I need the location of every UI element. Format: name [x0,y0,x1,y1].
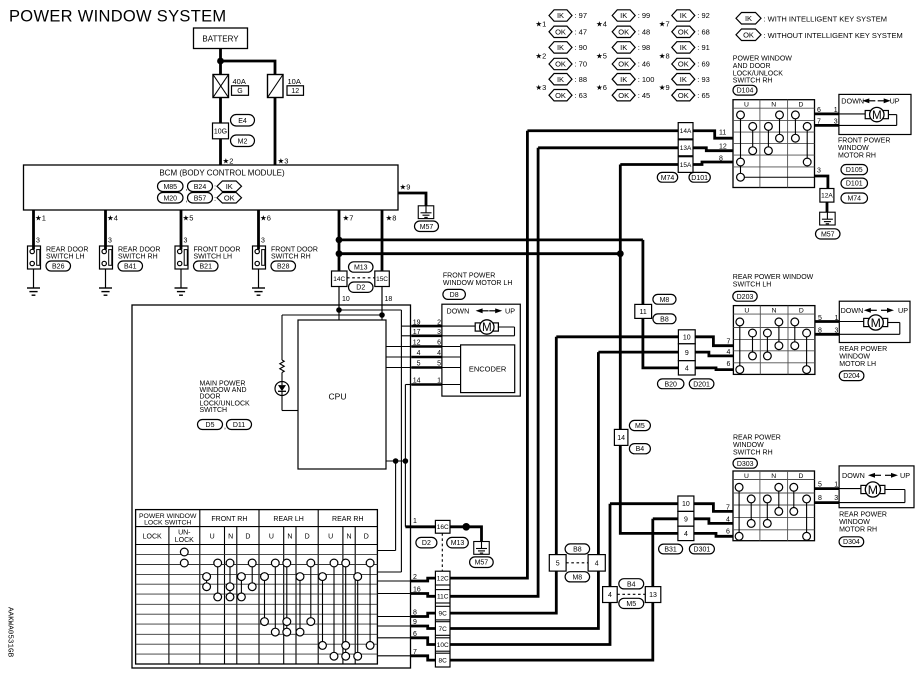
svg-text:D: D [364,533,369,540]
svg-text:IK: IK [680,75,687,84]
svg-text:★9: ★9 [400,183,411,192]
svg-text:IK: IK [557,11,564,20]
svg-text::: : [214,183,216,192]
svg-text:IK: IK [745,14,752,23]
svg-text:D: D [305,533,310,540]
svg-text:15C: 15C [376,276,388,283]
svg-text:IK: IK [557,43,564,52]
svg-text:9: 9 [413,619,417,626]
svg-text:WINDOW MOTOR LH: WINDOW MOTOR LH [443,280,512,287]
svg-text:N: N [772,307,777,314]
svg-text:SWITCH: SWITCH [200,407,228,414]
svg-text:D: D [798,473,803,480]
svg-text:OK: OK [618,60,629,69]
svg-text:1: 1 [413,518,417,525]
svg-text:LOCK: LOCK [175,537,194,544]
svg-text:10: 10 [683,334,691,341]
svg-text:: 100: : 100 [638,75,655,84]
svg-text:D2: D2 [422,540,431,547]
svg-text:8: 8 [818,495,822,502]
svg-text:★7: ★7 [343,214,354,223]
svg-text:9: 9 [684,516,688,523]
svg-text:: 45: : 45 [638,91,651,100]
svg-text:9C: 9C [439,611,448,618]
svg-text:M: M [872,109,882,122]
svg-text:2: 2 [413,574,417,581]
svg-text:E4: E4 [238,118,247,125]
svg-text:7C: 7C [439,626,448,633]
svg-text:SWITCH LH: SWITCH LH [46,254,85,261]
svg-text:M5: M5 [626,601,636,608]
svg-text:B8: B8 [660,316,669,323]
svg-text:,: , [224,424,226,431]
svg-text:OK: OK [555,60,566,69]
svg-text:D204: D204 [843,373,860,380]
svg-text:UP: UP [898,306,908,315]
svg-text:: 46: : 46 [638,60,651,69]
svg-text:OK: OK [678,60,689,69]
svg-text:10A: 10A [288,77,301,86]
svg-text:IK: IK [557,75,564,84]
svg-text:M2: M2 [238,138,248,145]
svg-text:★6: ★6 [596,83,607,92]
svg-text:D: D [245,533,250,540]
svg-text:U: U [744,307,749,314]
svg-text:6: 6 [726,529,730,536]
svg-text:D104: D104 [737,88,754,95]
svg-text:★5: ★5 [596,51,607,60]
svg-text:7: 7 [726,504,730,511]
svg-text:B20: B20 [664,381,677,388]
svg-text:OK: OK [743,30,754,39]
svg-text:10: 10 [342,296,350,303]
svg-text:D303: D303 [737,461,754,468]
svg-text:8C: 8C [439,658,448,665]
svg-text:DOWN: DOWN [842,471,865,480]
svg-text:16: 16 [413,587,421,594]
svg-text:★8: ★8 [659,51,670,60]
svg-text:11: 11 [640,309,647,316]
svg-text:★7: ★7 [659,19,670,28]
svg-text:D8: D8 [450,292,459,299]
svg-text:DOWN: DOWN [447,307,470,316]
svg-text:OK: OK [555,91,566,100]
svg-text:B4: B4 [636,446,645,453]
svg-text:: 48: : 48 [638,27,651,36]
svg-text:3: 3 [36,238,40,245]
svg-text:★5: ★5 [183,214,194,223]
svg-text:IK: IK [620,43,627,52]
svg-text:U: U [269,533,274,540]
svg-text:D2: D2 [356,285,365,292]
svg-text:D304: D304 [843,539,860,546]
svg-text:M13: M13 [451,540,465,547]
svg-text:D5: D5 [206,422,215,429]
svg-text:★4: ★4 [596,19,607,28]
svg-text:LOCK: LOCK [143,533,162,540]
svg-text:AAKWA0531GB: AAKWA0531GB [6,607,14,658]
svg-text:B4: B4 [627,581,636,588]
svg-text:12: 12 [291,88,299,95]
svg-text:UN-: UN- [178,530,191,537]
svg-text:MOTOR LH: MOTOR LH [839,361,876,368]
svg-text:★1: ★1 [535,19,546,28]
svg-text:REAR POWER WINDOW: REAR POWER WINDOW [733,274,814,281]
svg-text:IK: IK [620,11,627,20]
svg-text:M5: M5 [635,423,645,430]
svg-text:N: N [346,533,351,540]
svg-text:B31: B31 [664,547,677,554]
svg-text:14: 14 [617,435,625,442]
svg-text:: 47: : 47 [575,27,588,36]
svg-text:WINDOW: WINDOW [839,519,870,526]
svg-text:12: 12 [719,143,727,150]
svg-text:12C: 12C [437,576,449,583]
svg-text:OK: OK [555,28,566,37]
svg-text:B24: B24 [194,184,207,191]
svg-text:: 92: : 92 [697,11,710,20]
svg-text:B21: B21 [200,264,213,271]
svg-text:3: 3 [184,238,188,245]
svg-text:SWITCH RH: SWITCH RH [271,254,311,261]
svg-text:M: M [868,483,878,497]
svg-text:4: 4 [608,592,612,599]
svg-text:FRONT DOOR: FRONT DOOR [271,247,318,254]
svg-text:UP: UP [900,471,910,480]
svg-text:WINDOW: WINDOW [839,353,870,360]
svg-text:M57: M57 [821,231,835,238]
svg-text:REAR DOOR: REAR DOOR [46,247,88,254]
svg-text:: 88: : 88 [575,75,588,84]
svg-text:M8: M8 [660,297,670,304]
svg-text:13: 13 [649,592,657,599]
svg-text:★2: ★2 [535,51,546,60]
svg-text:POWER WINDOW SYSTEM: POWER WINDOW SYSTEM [9,7,226,25]
svg-text:OK: OK [224,193,235,202]
svg-text:M74: M74 [847,196,861,203]
svg-text:SWITCH LH: SWITCH LH [733,282,772,289]
svg-text:N: N [228,533,233,540]
svg-text::: : [214,194,216,203]
svg-text:7: 7 [413,649,417,656]
svg-text:DOWN: DOWN [841,97,864,106]
svg-text:M74: M74 [661,175,675,182]
svg-text:FRONT POWER: FRONT POWER [838,138,890,145]
svg-text:B28: B28 [277,264,290,271]
svg-text:LOCK SWITCH: LOCK SWITCH [144,520,191,527]
svg-text:D203: D203 [737,294,754,301]
svg-text:13A: 13A [680,145,692,152]
svg-text:3: 3 [261,238,265,245]
svg-text:D: D [799,307,804,314]
svg-text:UP: UP [505,307,515,316]
svg-text:4: 4 [684,531,688,538]
svg-text:M57: M57 [420,224,434,231]
svg-text:SWITCH RH: SWITCH RH [733,449,773,456]
svg-text:SWITCH RH: SWITCH RH [733,78,773,85]
svg-text:8: 8 [413,610,417,617]
svg-text:LOCK/UNLOCK: LOCK/UNLOCK [733,70,784,77]
svg-text:4: 4 [595,560,599,567]
svg-text:★3: ★3 [535,83,546,92]
svg-text:SWITCH RH: SWITCH RH [118,254,158,261]
svg-text:UP: UP [890,97,900,106]
svg-text:11C: 11C [437,594,449,601]
svg-text:16C: 16C [437,524,449,531]
svg-text:10C: 10C [437,642,449,649]
svg-text:REAR POWER: REAR POWER [733,435,781,442]
svg-text:U: U [210,533,215,540]
svg-text:M57: M57 [475,560,489,567]
svg-text:18: 18 [385,296,393,303]
svg-text:3: 3 [108,238,112,245]
svg-text:: 70: : 70 [575,60,588,69]
svg-text:D11: D11 [233,422,245,429]
svg-text:POWER WINDOW: POWER WINDOW [733,56,792,63]
svg-text:11: 11 [719,130,726,137]
svg-text:: WITH INTELLIGENT KEY SYSTEM: : WITH INTELLIGENT KEY SYSTEM [764,15,888,24]
svg-text:M13: M13 [354,265,368,272]
svg-text:N: N [771,102,776,109]
svg-text:★3: ★3 [278,157,289,166]
svg-text:4: 4 [685,365,689,372]
svg-text:: WITHOUT INTELLIGENT KEY SYST: : WITHOUT INTELLIGENT KEY SYSTEM [764,31,903,40]
svg-text:U: U [744,102,749,109]
svg-text:REAR DOOR: REAR DOOR [118,247,160,254]
svg-text:D301: D301 [694,547,711,554]
svg-text:: 91: : 91 [697,43,710,52]
svg-text:★9: ★9 [659,83,670,92]
svg-text:OK: OK [678,28,689,37]
svg-text:: 93: : 93 [697,75,710,84]
svg-text:D105: D105 [846,167,863,174]
svg-text:OK: OK [678,91,689,100]
svg-text:U: U [744,473,749,480]
svg-text:D101: D101 [846,181,863,188]
svg-text:6: 6 [727,361,731,368]
svg-text:: 69: : 69 [697,60,710,69]
svg-text:4: 4 [727,349,731,356]
svg-text:B41: B41 [124,264,137,271]
svg-text:SWITCH LH: SWITCH LH [194,254,233,261]
svg-text:10: 10 [682,501,690,508]
svg-text:CPU: CPU [329,392,347,402]
svg-text:REAR POWER: REAR POWER [839,512,887,519]
svg-text:N: N [287,533,292,540]
svg-text:FRONT DOOR: FRONT DOOR [194,247,241,254]
svg-text:D201: D201 [693,381,710,388]
svg-text:M85: M85 [163,184,177,191]
svg-text:12A: 12A [821,193,833,200]
svg-text:: 63: : 63 [575,91,588,100]
svg-text:5: 5 [556,560,560,567]
svg-text:M8: M8 [572,574,582,581]
svg-text:6: 6 [413,631,417,638]
svg-text:G: G [237,88,242,95]
svg-text:MOTOR RH: MOTOR RH [838,153,876,160]
svg-text:14A: 14A [680,128,692,135]
svg-text:OK: OK [618,91,629,100]
svg-text:REAR POWER: REAR POWER [839,346,887,353]
svg-text:IK: IK [680,43,687,52]
svg-text:9: 9 [685,350,689,357]
svg-text:8: 8 [719,156,723,163]
svg-text:M: M [871,316,881,330]
svg-text:IK: IK [226,182,233,191]
svg-text:14C: 14C [333,276,345,283]
svg-text:★1: ★1 [35,214,46,223]
svg-text:: 68: : 68 [697,27,710,36]
svg-text:OK: OK [618,28,629,37]
svg-text:M: M [482,321,492,334]
svg-text:IK: IK [620,75,627,84]
svg-text:3: 3 [817,168,821,175]
svg-text:: 65: : 65 [697,91,710,100]
svg-text:AND DOOR: AND DOOR [733,63,771,70]
svg-text:WINDOW: WINDOW [733,442,764,449]
svg-text:U: U [328,533,333,540]
svg-text:REAR LH: REAR LH [273,516,303,523]
svg-text:★6: ★6 [260,214,271,223]
svg-text:REAR RH: REAR RH [332,516,364,523]
svg-text:BCM (BODY CONTROL MODULE): BCM (BODY CONTROL MODULE) [159,169,285,178]
svg-text:D101: D101 [691,175,708,182]
svg-text:4: 4 [726,516,730,523]
svg-text:7: 7 [727,339,731,346]
svg-text:★8: ★8 [386,214,397,223]
svg-text:: 97: : 97 [575,11,588,20]
svg-text:★2: ★2 [223,157,234,166]
svg-text:M20: M20 [163,195,177,202]
svg-text:40A: 40A [233,77,246,86]
svg-text:D: D [798,102,803,109]
svg-text:ENCODER: ENCODER [469,365,507,374]
svg-text:WINDOW: WINDOW [838,145,869,152]
svg-text:FRONT RH: FRONT RH [211,516,247,523]
svg-text:15A: 15A [680,162,692,169]
svg-text:10G: 10G [214,128,227,135]
svg-text:★4: ★4 [107,214,118,223]
svg-text:MOTOR RH: MOTOR RH [839,526,877,533]
svg-text:3: 3 [834,495,838,502]
svg-text:FRONT POWER: FRONT POWER [443,273,495,280]
svg-text:B26: B26 [52,264,65,271]
svg-text:B8: B8 [573,547,582,554]
svg-text:N: N [771,473,776,480]
svg-text:: 99: : 99 [638,11,651,20]
svg-text:: 90: : 90 [575,43,588,52]
svg-text:DOWN: DOWN [841,306,864,315]
svg-text:: 98: : 98 [638,43,651,52]
svg-text:IK: IK [680,11,687,20]
svg-text:BATTERY: BATTERY [202,35,239,44]
svg-text:B57: B57 [194,195,207,202]
